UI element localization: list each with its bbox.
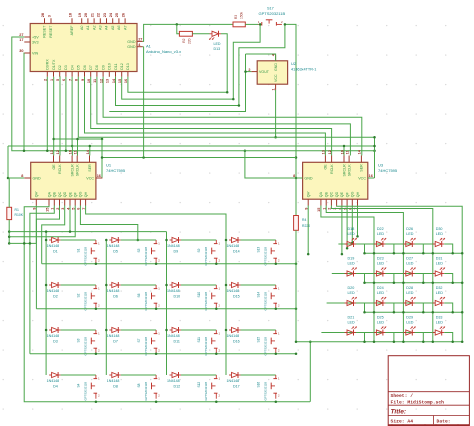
wire <box>121 374 156 376</box>
svg-text:GPTS203211B: GPTS203211B <box>204 247 208 266</box>
shift register U1 74HC7595 <box>21 149 102 212</box>
svg-text:SER: SER <box>88 164 92 172</box>
wire <box>35 206 37 244</box>
LED D24 <box>374 286 386 306</box>
svg-text:Size: A4: Size: A4 <box>391 419 414 425</box>
resistor R2 220 <box>179 31 192 44</box>
junction <box>46 150 49 153</box>
wire <box>245 23 258 25</box>
wire <box>181 374 216 376</box>
svg-text:VOUT: VOUT <box>259 70 270 74</box>
svg-text:S11: S11 <box>197 337 201 343</box>
switch S11 GPTS203211B <box>197 330 221 356</box>
junction <box>105 284 108 287</box>
svg-text:LED: LED <box>406 321 414 325</box>
LED D29 <box>403 316 415 336</box>
svg-text:19: 19 <box>78 13 82 17</box>
svg-text:220: 220 <box>188 38 192 44</box>
wire <box>327 302 436 304</box>
diode D11 1N4148 <box>167 327 181 343</box>
svg-text:U2: U2 <box>291 61 297 66</box>
svg-text:D24: D24 <box>377 286 384 290</box>
junction <box>422 341 425 344</box>
wire <box>444 244 453 253</box>
wire <box>59 77 61 156</box>
junction <box>142 156 145 159</box>
diode D4 1N4148 <box>47 372 61 388</box>
svg-text:GPTS203211B: GPTS203211B <box>264 247 268 266</box>
svg-text:LED: LED <box>348 291 356 295</box>
junction <box>45 230 48 233</box>
wire <box>357 206 359 237</box>
svg-text:13: 13 <box>322 150 326 154</box>
switch S4 GPTS203211B <box>77 375 101 401</box>
wire <box>61 239 96 241</box>
junction <box>284 23 287 26</box>
junction <box>274 136 277 139</box>
wire <box>295 230 297 341</box>
junction <box>101 156 104 159</box>
junction <box>461 282 464 285</box>
junction <box>155 352 158 355</box>
resistor R4 220 <box>294 216 311 231</box>
diode D7 1N4148 <box>107 327 121 343</box>
wire <box>341 206 343 255</box>
wire <box>42 206 65 264</box>
svg-text:S17: S17 <box>267 6 274 10</box>
junction <box>71 145 74 148</box>
wire <box>143 47 145 158</box>
junction <box>275 352 278 355</box>
svg-text:LED: LED <box>436 291 444 295</box>
svg-text:26: 26 <box>121 13 125 17</box>
svg-text:D8: D8 <box>95 65 99 70</box>
junction <box>422 282 425 285</box>
svg-text:SRCLR: SRCLR <box>342 164 346 177</box>
svg-text:QB: QB <box>53 191 57 197</box>
svg-text:A5: A5 <box>111 26 115 31</box>
svg-text:R2: R2 <box>182 38 186 42</box>
diode D2 1N4148 <box>47 282 61 298</box>
junction <box>402 311 405 314</box>
svg-text:S14: S14 <box>257 292 261 298</box>
junction <box>451 341 454 344</box>
wire <box>71 146 73 156</box>
svg-text:SRCLK: SRCLK <box>76 164 80 177</box>
wire <box>8 178 10 207</box>
svg-text:GPTS203211B: GPTS203211B <box>144 337 148 356</box>
junction <box>295 341 298 344</box>
junction <box>402 341 405 344</box>
LED D33 <box>433 316 445 336</box>
junction <box>238 104 241 107</box>
LED D31 <box>433 257 445 277</box>
junction <box>363 252 366 255</box>
wire <box>275 90 277 137</box>
wire <box>346 206 348 249</box>
op-amp A1 Arduino Nano module <box>19 12 142 83</box>
svg-text:GPTS203211B: GPTS203211B <box>144 382 148 401</box>
junction <box>461 252 464 255</box>
diode D12 1N4148 <box>167 372 181 388</box>
junction <box>422 252 425 255</box>
wire <box>221 34 227 93</box>
svg-text:3: 3 <box>47 15 51 17</box>
diode D17 1N4148 <box>227 372 241 388</box>
svg-text:1N4148: 1N4148 <box>107 244 120 248</box>
svg-text:13: 13 <box>50 150 54 154</box>
wire <box>356 303 365 312</box>
svg-text:1N4148: 1N4148 <box>107 289 120 293</box>
svg-text:1N4148: 1N4148 <box>47 334 60 338</box>
wire <box>91 77 332 156</box>
junction <box>461 311 464 314</box>
junction <box>393 341 396 344</box>
svg-text:LED: LED <box>406 232 414 236</box>
svg-text:QD: QD <box>63 191 67 197</box>
wire <box>8 220 10 244</box>
wire <box>86 206 226 241</box>
svg-text:D11: D11 <box>174 339 180 343</box>
wire <box>343 146 345 156</box>
svg-text:A2: A2 <box>92 26 96 31</box>
svg-text:VIN: VIN <box>32 51 38 55</box>
junction <box>95 262 98 265</box>
svg-text:1N4148: 1N4148 <box>227 289 240 293</box>
svg-text:S16: S16 <box>257 382 261 388</box>
svg-text:LED: LED <box>377 291 385 295</box>
wire <box>65 77 67 151</box>
junction <box>295 156 298 159</box>
svg-text:QH': QH' <box>35 191 39 197</box>
svg-text:QD: QD <box>335 191 339 197</box>
LED D27 <box>403 257 415 277</box>
wire <box>356 274 365 283</box>
wire <box>97 77 351 156</box>
svg-text:QH: QH <box>84 191 88 197</box>
junction <box>45 284 48 287</box>
wire <box>246 54 276 61</box>
svg-text:GPTS203211B: GPTS203211B <box>204 292 208 311</box>
svg-text:12: 12 <box>56 150 60 154</box>
switch S13 GPTS203211B <box>257 240 281 266</box>
svg-text:5: 5 <box>56 79 60 81</box>
svg-text:A0: A0 <box>80 26 84 31</box>
junction <box>215 352 218 355</box>
label U2 <box>291 61 316 72</box>
wire <box>30 353 296 355</box>
wire <box>365 282 463 284</box>
junction <box>52 138 55 141</box>
svg-text:QF: QF <box>345 191 349 197</box>
wire <box>24 206 310 402</box>
wire <box>241 239 276 241</box>
LED D22 <box>374 227 386 247</box>
svg-text:LED: LED <box>348 262 356 266</box>
wire <box>80 206 137 241</box>
wire <box>385 303 394 312</box>
junction <box>165 329 168 332</box>
wire <box>103 77 362 156</box>
switch S14 GPTS203211B <box>257 285 281 311</box>
svg-text:D30: D30 <box>436 227 443 231</box>
diode D5 1N4148 <box>107 237 121 253</box>
diode D16 1N4148 <box>227 327 241 343</box>
junction <box>225 329 228 332</box>
label A1 Arduino_Nano_v3.x <box>146 44 181 55</box>
svg-text:S3: S3 <box>77 338 81 342</box>
wire <box>321 206 374 342</box>
wire <box>233 24 260 99</box>
svg-text:S2: S2 <box>77 293 81 297</box>
wire <box>241 374 276 376</box>
wire <box>296 341 462 343</box>
junction <box>295 352 298 355</box>
svg-text:15: 15 <box>45 208 49 212</box>
wire <box>42 263 296 265</box>
wire <box>338 243 435 245</box>
svg-text:D33: D33 <box>436 316 443 320</box>
svg-text:VCC: VCC <box>358 176 366 180</box>
wire <box>122 77 234 99</box>
wire <box>9 231 166 233</box>
switch S5 GPTS203211B <box>137 240 161 266</box>
wire <box>385 333 394 342</box>
junction <box>402 282 405 285</box>
wire <box>296 177 303 179</box>
junction <box>95 401 98 404</box>
switch S3 GPTS203211B <box>77 330 101 356</box>
wire <box>45 232 47 375</box>
svg-text:16: 16 <box>97 174 101 178</box>
wire <box>9 242 36 244</box>
svg-text:A4: A4 <box>105 26 109 31</box>
svg-text:QC: QC <box>58 191 62 197</box>
wire <box>444 274 453 283</box>
svg-text:LED: LED <box>436 232 444 236</box>
svg-text:AREF: AREF <box>70 25 74 36</box>
wire <box>337 206 463 342</box>
svg-text:S6: S6 <box>137 293 141 297</box>
svg-text:GPTS203211B: GPTS203211B <box>264 337 268 356</box>
svg-text:QF: QF <box>74 191 78 197</box>
svg-text:25: 25 <box>115 13 119 17</box>
svg-text:U3: U3 <box>378 163 384 168</box>
junction <box>341 253 344 256</box>
svg-text:13: 13 <box>106 79 110 83</box>
resistor R1 10K <box>7 207 24 219</box>
junction <box>351 241 354 244</box>
wire <box>8 146 375 178</box>
wire <box>116 77 239 106</box>
svg-text:LED: LED <box>377 232 385 236</box>
junction <box>45 329 48 332</box>
LED D18 <box>345 227 357 247</box>
wire <box>246 71 252 73</box>
wire <box>321 332 435 334</box>
diode D15 1N4148 <box>227 282 241 298</box>
wire <box>46 77 48 151</box>
LED D23 <box>374 257 386 277</box>
svg-text:Sheet: /: Sheet: / <box>391 393 414 399</box>
svg-text:Title:: Title: <box>391 409 407 416</box>
wire <box>61 374 96 376</box>
junction <box>295 307 298 310</box>
title block text <box>391 393 470 426</box>
junction <box>23 150 26 153</box>
svg-text:S4: S4 <box>77 383 81 387</box>
svg-text:1N4148: 1N4148 <box>227 334 240 338</box>
diode D8 1N4148 <box>107 372 121 388</box>
wire <box>385 274 394 283</box>
svg-text:74HC7595: 74HC7595 <box>106 168 126 173</box>
diode D1 1N4148 <box>47 237 61 253</box>
junction <box>373 252 376 255</box>
switch S16 GPTS203211B <box>257 375 281 401</box>
switch S6 GPTS203211B <box>137 285 161 311</box>
wire <box>85 77 326 156</box>
junction <box>95 352 98 355</box>
junction <box>65 150 68 153</box>
svg-text:QA: QA <box>47 191 51 197</box>
regulator U2 41363x4TTR-1 <box>248 53 287 90</box>
wire <box>8 177 24 179</box>
switch S8 GPTS203211B <box>137 375 161 401</box>
LED D26 <box>403 227 415 247</box>
svg-text:LED: LED <box>406 291 414 295</box>
wire <box>245 151 296 178</box>
junction <box>69 230 72 233</box>
wire <box>7 146 9 178</box>
svg-text:SRCLR: SRCLR <box>70 164 74 177</box>
svg-text:D14: D14 <box>233 249 240 253</box>
svg-text:18: 18 <box>68 13 72 17</box>
junction <box>373 311 376 314</box>
svg-text:S7: S7 <box>137 338 141 342</box>
svg-text:QG: QG <box>79 191 83 197</box>
shift register U3 74HC7595 <box>293 149 374 212</box>
svg-text:GPTS203211B: GPTS203211B <box>84 337 88 356</box>
switch S7 GPTS203211B <box>137 330 161 356</box>
frame ruler ticks <box>391 425 393 426</box>
svg-text:10: 10 <box>68 150 72 154</box>
svg-text:LED: LED <box>377 262 385 266</box>
junction <box>225 284 228 287</box>
svg-text:LED: LED <box>436 262 444 266</box>
svg-text:D1/TX: D1/TX <box>52 59 56 70</box>
svg-text:Arduino_Nano_v3.x: Arduino_Nano_v3.x <box>146 49 181 54</box>
junction <box>7 177 10 180</box>
junction <box>275 401 278 404</box>
wire <box>143 24 233 41</box>
svg-text:D5: D5 <box>113 249 118 253</box>
svg-text:30: 30 <box>19 49 23 53</box>
junction <box>176 23 179 26</box>
svg-text:S15: S15 <box>257 337 261 343</box>
LED D19 <box>345 257 357 277</box>
svg-text:27: 27 <box>138 38 142 42</box>
wire <box>365 252 463 254</box>
junction <box>225 239 228 242</box>
svg-text:1N4148: 1N4148 <box>107 379 120 383</box>
svg-text:8: 8 <box>293 174 295 178</box>
svg-text:D8: D8 <box>113 384 118 388</box>
wire <box>121 329 156 331</box>
label U1 <box>106 163 126 174</box>
svg-text:SER: SER <box>360 164 364 172</box>
junction <box>373 145 376 148</box>
svg-text:File: MidiStomp.sch: File: MidiStomp.sch <box>391 400 445 406</box>
junction <box>226 91 229 94</box>
svg-text:GPTS203211B: GPTS203211B <box>144 247 148 266</box>
svg-text:12: 12 <box>328 150 332 154</box>
svg-text:D13: D13 <box>126 63 130 70</box>
svg-text:D10: D10 <box>108 63 112 70</box>
svg-text:D3: D3 <box>64 65 68 70</box>
wire <box>54 138 102 140</box>
svg-text:150k: 150k <box>240 11 244 19</box>
wire <box>181 239 216 241</box>
wire <box>30 206 54 354</box>
svg-text:D4: D4 <box>70 65 74 70</box>
wire <box>181 329 216 331</box>
switch S17 GPTS203211B <box>258 6 286 25</box>
junction <box>8 235 11 238</box>
svg-text:+5V: +5V <box>32 35 39 39</box>
junction <box>89 145 92 148</box>
svg-text:U1: U1 <box>106 163 112 168</box>
svg-text:D3: D3 <box>53 339 58 343</box>
junction <box>232 98 235 101</box>
wire <box>356 244 365 253</box>
junction <box>45 239 48 242</box>
svg-text:1N4148: 1N4148 <box>167 379 180 383</box>
svg-text:11: 11 <box>74 150 78 154</box>
svg-text:QA: QA <box>319 191 323 197</box>
diode D10 1N4148 <box>167 282 181 298</box>
svg-text:10: 10 <box>340 150 344 154</box>
wire <box>9 206 75 237</box>
junction <box>23 242 26 245</box>
svg-text:GPTS203211B: GPTS203211B <box>204 382 208 401</box>
svg-text:D29: D29 <box>406 316 413 320</box>
junction <box>275 262 278 265</box>
junction <box>451 252 454 255</box>
svg-text:S1: S1 <box>77 248 81 252</box>
svg-text:D17: D17 <box>233 384 240 388</box>
junction <box>244 150 247 153</box>
wire <box>166 232 168 375</box>
wire <box>89 146 91 156</box>
LED D28 <box>403 286 415 306</box>
wire <box>71 77 73 146</box>
junction <box>8 230 11 233</box>
junction <box>76 138 79 141</box>
wire <box>326 206 403 342</box>
wire <box>285 24 296 215</box>
svg-text:D10: D10 <box>174 294 181 298</box>
svg-text:Date:: Date: <box>437 419 451 425</box>
junction <box>363 341 366 344</box>
svg-text:QE: QE <box>340 191 344 197</box>
svg-text:R220: R220 <box>302 224 310 228</box>
title block frame <box>388 356 469 426</box>
switch S12 GPTS203211B <box>197 375 221 401</box>
junction <box>363 311 366 314</box>
svg-text:R4: R4 <box>302 218 306 222</box>
svg-text:41363x4TTR-1: 41363x4TTR-1 <box>291 68 316 72</box>
svg-text:3V3: 3V3 <box>32 40 39 44</box>
